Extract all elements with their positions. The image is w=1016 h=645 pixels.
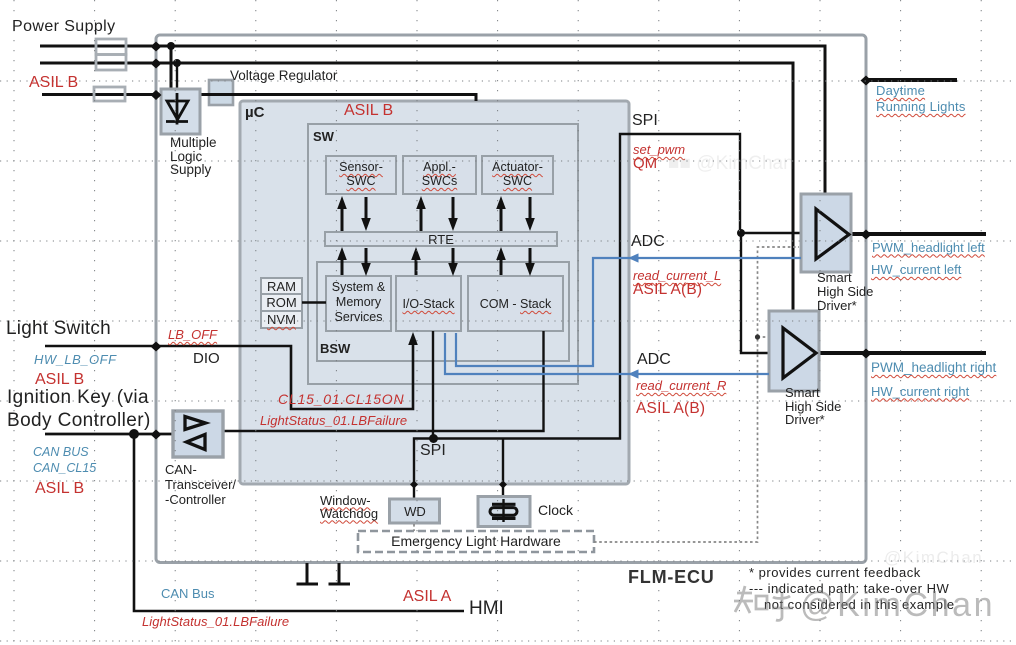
watermark <box>734 580 1016 626</box>
label System & Memory Services <box>326 280 391 325</box>
wire power supply line 1 to Smart High Side Driver left <box>40 46 825 196</box>
ROM box <box>261 294 302 311</box>
RTE bar <box>325 232 557 246</box>
label read_current_R <box>636 378 726 393</box>
wire HMI line <box>134 434 464 611</box>
fuse F1 <box>96 39 126 55</box>
label WD <box>390 504 440 519</box>
label COM-Stack <box>468 297 563 311</box>
driver right triangle <box>783 328 816 378</box>
wire Light Switch DIO line into I/O-Stack <box>45 343 413 409</box>
label uC <box>245 104 264 121</box>
label FLM-ECU <box>628 567 715 588</box>
arrowhead into I/O-Stack <box>408 332 418 345</box>
WD watchdog box <box>390 499 440 523</box>
blue wire read_current_L to I/O-Stack <box>456 258 801 366</box>
wire power supply line 2 to Smart High Side Driver right <box>40 63 793 312</box>
label read_current_L <box>633 268 721 283</box>
label CAN Bus <box>161 586 214 601</box>
microcontroller uC box <box>240 101 629 484</box>
I/O-Stack box <box>396 276 461 331</box>
wire SPI net I/O-Stack to junction <box>432 331 434 439</box>
label ASIL A(B) right <box>636 400 705 418</box>
NVM box <box>261 311 302 328</box>
wire ROM to System&Memory <box>302 301 326 303</box>
label Sensor-SWC <box>326 160 396 188</box>
label Appl.-SWCs <box>403 160 476 188</box>
label PWM_headlight right <box>871 360 996 375</box>
Clock box <box>478 497 530 527</box>
blue arrowhead ADC right <box>628 369 639 378</box>
label ASIL B light switch <box>35 371 84 389</box>
FLM-ECU outer box <box>156 35 866 563</box>
label Actuator-SWC <box>482 160 553 188</box>
label Voltage Regulator <box>230 68 337 83</box>
label Window-Watchdog <box>320 494 378 520</box>
CAN transceiver box U5 <box>173 411 223 457</box>
ground symbol left <box>297 563 319 584</box>
junction diamonds on box edges <box>151 42 872 489</box>
wire CAN transceiver to COM-Stack <box>223 331 544 431</box>
label DIO <box>193 350 220 367</box>
label Smart High Side Driver left <box>817 271 873 313</box>
Smart High Side Driver right box U4 <box>769 311 819 391</box>
label ASIL A <box>403 588 451 606</box>
watermark ghost faint corner <box>884 548 983 568</box>
wire SPI net WD to drivers <box>414 134 801 499</box>
watermark ghost <box>668 153 794 175</box>
label ADC left <box>631 233 665 251</box>
clock crystal symbol <box>490 499 517 522</box>
wire Daytime Running Lights output <box>866 78 957 82</box>
COM-Stack box <box>468 276 563 331</box>
Appl.-SWCs box <box>403 156 476 194</box>
blue arrowhead ADC left <box>628 253 639 262</box>
label HW_current left <box>871 262 961 277</box>
label SPI top <box>632 112 658 130</box>
label NVM <box>261 312 302 327</box>
label LB_OFF <box>168 327 217 342</box>
fuse F3 <box>94 87 125 101</box>
blue wire read_current_R to I/O-Stack <box>445 333 769 374</box>
label CAN BUS / CAN_CL15 <box>33 445 96 476</box>
Smart High Side Driver left box U3 <box>801 194 851 272</box>
wire SPI branch to right driver <box>741 233 769 353</box>
label HW_current right <box>871 384 969 399</box>
label PWM_headlight left <box>872 240 985 255</box>
SW box <box>308 124 578 384</box>
wire PWM_headlight right output <box>819 351 986 355</box>
label Clock <box>538 502 573 518</box>
label SPI bottom <box>420 442 446 460</box>
System & Memory Services box <box>326 276 391 331</box>
label I/O-Stack <box>396 297 461 311</box>
label RAM <box>261 279 302 294</box>
label HMI <box>469 598 504 620</box>
dashed take-over path <box>594 247 799 542</box>
label BSW <box>320 341 350 356</box>
dashed stub WD to emergency hardware <box>413 524 415 531</box>
driver left triangle <box>816 209 849 259</box>
voltage regulator U2 (under supply wire) <box>209 80 233 105</box>
svg-text:@KimChan: @KimChan <box>800 586 995 624</box>
label footnote <box>749 565 955 613</box>
Emergency Light Hardware dashed box <box>358 531 594 552</box>
label ROM <box>261 295 302 310</box>
label set_pwm <box>633 142 685 157</box>
label CL15_01.CL15ON <box>278 391 404 407</box>
label ASIL B top <box>29 74 78 92</box>
label LightStatus_01.LBFailure <box>260 413 407 428</box>
Sensor-SWC box <box>326 156 396 194</box>
label Light Switch <box>6 318 111 340</box>
label HW_LB_OFF <box>34 352 117 367</box>
label Power Supply <box>12 18 116 36</box>
Actuator-SWC box <box>482 156 553 194</box>
label Multiple Logic Supply <box>170 136 217 177</box>
BSW box <box>317 262 569 361</box>
wire stub supply line1 to Multiple Logic Supply <box>170 46 173 90</box>
label RTE <box>325 232 557 247</box>
wire clock stub <box>502 439 504 497</box>
label SW <box>313 129 334 144</box>
wire PWM_headlight left output <box>851 232 986 236</box>
Multiple Logic Supply box <box>161 89 200 134</box>
label ASIL A(B) left <box>633 281 702 299</box>
label Daytime Running Lights <box>876 83 966 115</box>
Multiple Logic Supply symbol <box>166 93 188 125</box>
ground symbol right <box>329 563 351 584</box>
wire Ignition Key CAN line into transceiver <box>45 433 173 436</box>
CAN transceiver symbol triangles <box>185 417 206 450</box>
RAM box <box>261 278 302 294</box>
label CAN-Transceiver/-Controller <box>165 462 236 507</box>
arrows SWC boxes to RTE and RTE to BSW stacks <box>342 197 530 275</box>
label ADC right <box>637 351 671 369</box>
label Smart High Side Driver right <box>785 386 841 427</box>
label Emergency Light Hardware <box>358 533 594 549</box>
label QM <box>633 155 657 172</box>
label Ignition Key <box>7 386 151 432</box>
fuse F2 <box>96 55 126 71</box>
label LightStatus_01.LBFailure bottom <box>142 614 289 629</box>
label ASIL B uC <box>344 102 393 120</box>
label ASIL B ignition <box>35 480 84 498</box>
junction dot on dashed path <box>755 334 760 339</box>
wire power supply line 3 (ASIL B) to voltage regulator and uC <box>42 95 476 102</box>
wire stub supply line2 into Multiple Logic Supply <box>176 63 178 95</box>
